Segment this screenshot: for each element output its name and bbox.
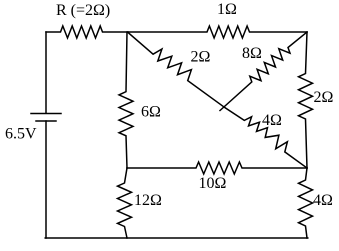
wire left rail upper (45, 32, 47, 113)
resistor 2Ω right vertical (299, 32, 313, 168)
svg-text:1Ω: 1Ω (217, 1, 237, 18)
wire left rail lower (45, 121, 47, 238)
svg-text:12Ω: 12Ω (134, 192, 162, 209)
svg-text:2Ω: 2Ω (191, 49, 211, 66)
battery 6.5V short plate (36, 120, 56, 122)
resistor 6Ω middle vertical (119, 32, 133, 168)
svg-text:R (=2Ω): R (=2Ω) (56, 2, 110, 19)
resistor 12Ω (118, 168, 132, 238)
svg-text:6.5V: 6.5V (5, 126, 37, 143)
svg-text:8Ω: 8Ω (242, 45, 262, 62)
resistor 4Ω diagonal (224, 107, 307, 168)
resistor R (=2Ω) (46, 26, 128, 38)
svg-text:2Ω: 2Ω (314, 89, 334, 106)
resistor 10Ω (127, 162, 307, 174)
wire bottom (45, 237, 308, 239)
svg-text:10Ω: 10Ω (199, 175, 227, 192)
svg-text:4Ω: 4Ω (313, 192, 333, 209)
svg-text:4Ω: 4Ω (262, 112, 282, 129)
resistor 8Ω diagonal (220, 32, 307, 111)
resistor 1Ω top (128, 26, 307, 38)
resistor 4Ω bottom right vertical (299, 168, 313, 238)
svg-text:6Ω: 6Ω (141, 104, 161, 121)
resistor 2Ω diagonal (128, 33, 224, 108)
battery 6.5V long plate (31, 113, 61, 115)
